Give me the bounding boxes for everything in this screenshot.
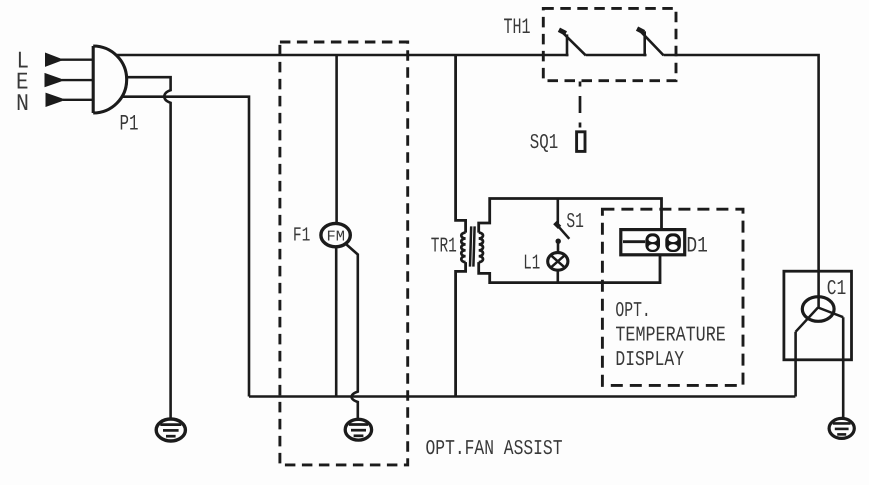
dashed link TH1 to SQ1 xyxy=(579,82,582,131)
ground symbol (fan) xyxy=(345,419,371,440)
wire fan feed from L wire xyxy=(335,55,338,224)
sensor SQ1 xyxy=(577,132,585,152)
TH1 contact 1 riser xyxy=(566,34,569,56)
svg-text:OPT.FAN ASSIST: OPT.FAN ASSIST xyxy=(426,438,563,461)
neutral bottom rail xyxy=(249,395,795,398)
svg-text:L1: L1 xyxy=(523,253,540,276)
svg-text:TR1: TR1 xyxy=(431,236,457,259)
wire L: plug to TH1 contact 1 xyxy=(116,54,569,57)
TH1 contact 1 tip xyxy=(559,30,566,34)
wire lamp L1 to bottom rail xyxy=(556,270,559,282)
fan motor F1 (FM) xyxy=(321,223,350,246)
TR1 primary winding xyxy=(461,233,465,263)
switch S1 blade xyxy=(556,224,569,239)
wire FM to neutral rail xyxy=(335,247,338,397)
compressor C1 motor circle xyxy=(802,297,834,322)
wire FM to ground, hop over neutral rail xyxy=(345,243,358,420)
ground symbol (earth pin) xyxy=(156,419,185,441)
svg-text:DISPLAY: DISPLAY xyxy=(615,349,684,372)
wire to TR1 primary from L wire xyxy=(456,55,466,233)
TR1 secondary winding xyxy=(479,233,483,263)
svg-text:S1: S1 xyxy=(566,211,584,234)
wire TH1 to right bus down to compressor C1 xyxy=(664,55,819,309)
ground symbol (compressor) xyxy=(829,418,854,438)
svg-text:P1: P1 xyxy=(120,112,139,137)
svg-text:FM: FM xyxy=(327,229,346,246)
svg-text:TEMPERATURE: TEMPERATURE xyxy=(615,324,725,347)
wire S1 to lamp L1 xyxy=(557,244,560,253)
wire E: plug right then down, hop over N wire, down to ground xyxy=(127,77,171,419)
wire C1 left leg to neutral rail xyxy=(794,332,797,397)
plug P1 body xyxy=(93,46,126,113)
temperature display dashed box xyxy=(602,209,743,385)
display D1 box xyxy=(621,230,685,255)
pin arrow N xyxy=(46,93,65,106)
TH1 contact 1 blade xyxy=(560,30,586,55)
display D1 digits 88 xyxy=(645,233,680,252)
svg-text:OPT.: OPT. xyxy=(615,300,650,323)
TH1 contact 2 blade xyxy=(638,29,664,56)
wire C1 right leg to ground xyxy=(842,317,845,419)
compressor C1 spokes xyxy=(796,308,844,332)
TH1 contact 2 riser xyxy=(643,31,646,56)
lamp L1 xyxy=(548,253,568,271)
fan assist dashed box xyxy=(280,42,408,465)
wire between TH1 contacts xyxy=(586,54,647,57)
pin arrow L xyxy=(46,53,63,66)
wire TR1 secondary top rail to display D1 xyxy=(479,199,662,233)
switch S1 contact dot xyxy=(556,239,561,244)
svg-text:SQ1: SQ1 xyxy=(530,132,558,155)
switch S1 blade tip xyxy=(555,223,560,228)
TH1 contact 2 tip xyxy=(637,29,644,33)
display D1 minus dash xyxy=(623,240,645,243)
wire pin N to plug xyxy=(63,99,93,101)
lamp L1 cross xyxy=(551,255,565,267)
svg-text:F1: F1 xyxy=(293,225,311,248)
pin arrow E xyxy=(45,74,64,87)
svg-text:TH1: TH1 xyxy=(504,15,531,40)
svg-text:C1: C1 xyxy=(827,278,847,301)
switch S1 stem xyxy=(556,199,559,225)
TR1 core xyxy=(470,226,475,266)
svg-text:N: N xyxy=(16,91,29,118)
wire N: plug to right then down to neutral rail xyxy=(122,97,249,397)
wire TR1 primary to neutral rail xyxy=(456,262,466,396)
wire TR1 secondary bottom rail to display D1 xyxy=(479,255,660,283)
wire pin E to plug xyxy=(62,79,93,81)
wire pin L to plug xyxy=(61,59,93,61)
thermostat TH1 dashed box xyxy=(543,8,676,80)
compressor C1 box xyxy=(784,271,852,360)
svg-text:D1: D1 xyxy=(686,233,708,258)
